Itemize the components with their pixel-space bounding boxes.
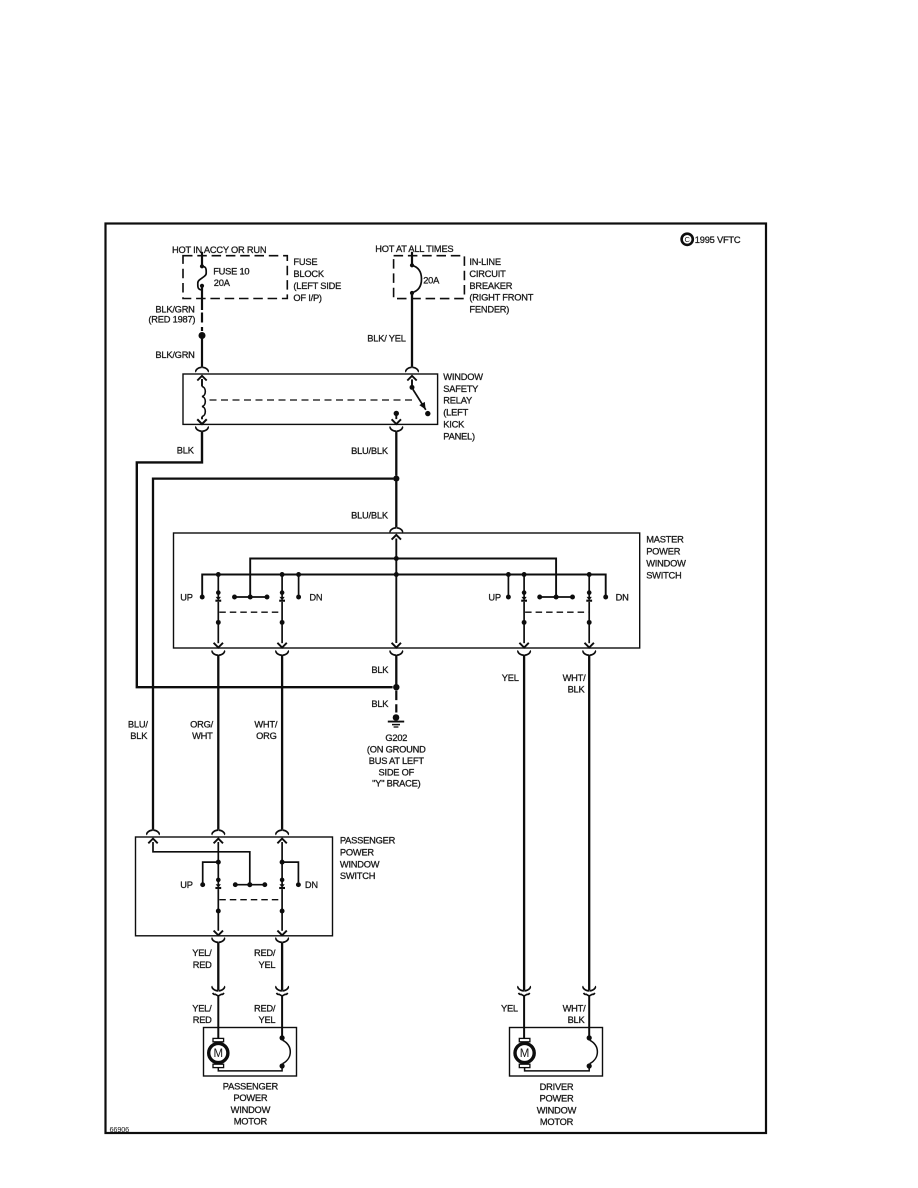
svg-text:ORG/: ORG/ bbox=[190, 720, 214, 730]
passenger input arrow 2 bbox=[214, 839, 223, 844]
wire RED/YEL to connector bbox=[281, 942, 283, 990]
svg-text:FUSE 10: FUSE 10 bbox=[213, 267, 249, 277]
wire RED/YEL into motor bbox=[281, 996, 283, 1036]
svg-text:DRIVER: DRIVER bbox=[540, 1082, 574, 1092]
connector dome master switch input bbox=[390, 528, 402, 533]
passenger entry 2 wire bbox=[217, 842, 219, 878]
svg-text:PANEL): PANEL) bbox=[443, 432, 475, 442]
svg-text:SWITCH: SWITCH bbox=[646, 571, 681, 581]
connector cup passenger exit 2 bbox=[276, 938, 288, 943]
junction line B right contact 1 bbox=[522, 572, 527, 577]
master left contact 1 column bbox=[215, 575, 221, 644]
fuse F10 bbox=[198, 252, 206, 290]
master right contact 1 column bbox=[521, 575, 527, 644]
wire BLK/GRN dashed (RED 1987) bbox=[201, 287, 203, 331]
master right triple contacts bbox=[537, 595, 575, 600]
svg-text:HOT IN ACCY OR RUN: HOT IN ACCY OR RUN bbox=[172, 245, 266, 255]
master center wire bbox=[395, 539, 397, 644]
label FUSE 10 20A bbox=[213, 267, 249, 289]
svg-text:66906: 66906 bbox=[110, 1125, 130, 1134]
passenger entry 3 wire bbox=[281, 842, 283, 878]
svg-text:WINDOW: WINDOW bbox=[537, 1105, 577, 1115]
wire BLK/YEL bbox=[411, 295, 413, 367]
svg-text:WHT: WHT bbox=[192, 731, 213, 741]
master right contact 2 column bbox=[586, 575, 592, 644]
junction passenger entry 3 bbox=[280, 860, 285, 865]
window safety relay box bbox=[183, 374, 438, 424]
svg-text:YEL/: YEL/ bbox=[192, 948, 212, 958]
svg-text:RED/: RED/ bbox=[254, 1003, 276, 1013]
splice S bbox=[199, 332, 206, 339]
svg-text:OF I/P): OF I/P) bbox=[293, 293, 322, 303]
svg-text:(RIGHT FRONT: (RIGHT FRONT bbox=[469, 293, 533, 303]
master left contact 2 column bbox=[279, 575, 285, 644]
svg-text:1995 VFTC: 1995 VFTC bbox=[695, 235, 741, 245]
passenger input arrow 1 bbox=[148, 839, 157, 844]
connector dome relay switch input bbox=[406, 367, 418, 372]
in-line connector RED/YEL bbox=[276, 986, 288, 996]
svg-text:BLOCK: BLOCK bbox=[293, 269, 324, 279]
master bus line A bbox=[250, 559, 556, 596]
wire WHT/ORG master to passenger switch bbox=[281, 655, 283, 830]
svg-text:WHT/: WHT/ bbox=[563, 673, 587, 683]
motor M driver bbox=[515, 1038, 534, 1067]
svg-text:BUS AT LEFT: BUS AT LEFT bbox=[369, 756, 425, 766]
svg-text:SIDE OF: SIDE OF bbox=[378, 767, 414, 777]
svg-text:IN-LINE: IN-LINE bbox=[469, 257, 501, 267]
junction line B center bbox=[394, 572, 399, 577]
svg-text:SWITCH: SWITCH bbox=[340, 871, 375, 881]
wire BLU/BLK to master switch bbox=[395, 482, 397, 528]
svg-text:WHT/: WHT/ bbox=[254, 720, 278, 730]
passenger motor return path bbox=[218, 1067, 282, 1071]
junction BLU/BLK bbox=[393, 476, 399, 482]
in-line connector YEL/RED bbox=[212, 986, 224, 996]
connector dome passenger switch input 2 bbox=[212, 830, 224, 835]
ground G202 bbox=[388, 714, 404, 727]
connector cup master exit WHT/BLK bbox=[583, 651, 595, 656]
svg-text:ORG: ORG bbox=[256, 731, 277, 741]
svg-text:YEL: YEL bbox=[501, 1003, 518, 1013]
motor M passenger bbox=[209, 1038, 228, 1067]
master input arrow bbox=[392, 535, 401, 540]
svg-text:(RED 1987): (RED 1987) bbox=[148, 315, 195, 325]
driver power window motor box bbox=[510, 1028, 603, 1077]
svg-text:(LEFT: (LEFT bbox=[443, 408, 468, 418]
svg-text:WINDOW: WINDOW bbox=[231, 1105, 271, 1115]
svg-text:WHT/: WHT/ bbox=[563, 1003, 587, 1013]
master bus line B bbox=[202, 575, 606, 596]
svg-text:SAFETY: SAFETY bbox=[443, 384, 478, 394]
wire BLK relay to ground bus bbox=[137, 431, 393, 687]
master right dashed jumper bbox=[525, 611, 588, 613]
svg-text:UP: UP bbox=[180, 592, 192, 602]
copyright logo bbox=[682, 234, 741, 246]
svg-text:POWER: POWER bbox=[539, 1094, 574, 1104]
svg-text:RELAY: RELAY bbox=[443, 396, 472, 406]
passenger contact 2 bbox=[279, 878, 285, 931]
svg-text:YEL/: YEL/ bbox=[192, 1003, 212, 1013]
svg-text:BLK: BLK bbox=[130, 731, 148, 741]
passenger contact 1 bbox=[215, 878, 221, 931]
master left dashed jumper bbox=[219, 611, 281, 613]
svg-text:(LEFT SIDE: (LEFT SIDE bbox=[293, 281, 341, 291]
connector dome passenger switch input 1 bbox=[147, 830, 159, 835]
wire BLK/GRN bbox=[201, 338, 203, 367]
wire BLK master to ground junction bbox=[395, 655, 397, 685]
wire YEL/RED into motor bbox=[217, 996, 219, 1038]
connector dome relay coil input bbox=[196, 367, 208, 372]
wire YEL into driver motor bbox=[523, 996, 525, 1038]
wire YEL master to driver motor bbox=[523, 655, 525, 990]
wire BLK dashed to ground bbox=[395, 691, 397, 713]
in-line circuit breaker dashed box bbox=[394, 256, 465, 299]
svg-text:BLU/: BLU/ bbox=[128, 720, 148, 730]
svg-text:RED: RED bbox=[193, 1015, 212, 1025]
master exit arrow BLK bbox=[392, 643, 401, 648]
svg-text:POWER: POWER bbox=[646, 546, 681, 556]
wire WHT/BLK master to driver motor bbox=[588, 655, 590, 990]
svg-text:BLU/BLK: BLU/BLK bbox=[351, 511, 389, 521]
fuse block dashed box bbox=[183, 256, 287, 299]
in-line connector WHT/BLK driver bbox=[583, 986, 595, 996]
svg-text:"Y" BRACE): "Y" BRACE) bbox=[372, 779, 420, 789]
connector cup relay ground bbox=[196, 427, 208, 432]
svg-text:BLK: BLK bbox=[371, 699, 389, 709]
master UP-left terminal bbox=[200, 595, 205, 600]
in-line connector YEL driver bbox=[518, 986, 530, 996]
svg-text:C: C bbox=[684, 235, 690, 244]
svg-text:BLK/GRN: BLK/GRN bbox=[155, 304, 194, 314]
connector cup master exit 2 bbox=[276, 651, 288, 656]
svg-text:PASSENGER: PASSENGER bbox=[340, 836, 396, 846]
svg-text:WINDOW: WINDOW bbox=[646, 559, 686, 569]
svg-text:DN: DN bbox=[305, 880, 318, 890]
connector cup relay output bbox=[390, 427, 402, 432]
svg-text:FUSE: FUSE bbox=[293, 257, 317, 267]
wire WHT/BLK into driver motor bbox=[588, 996, 590, 1036]
passenger DN stub bbox=[282, 862, 301, 887]
svg-text:YEL: YEL bbox=[258, 960, 275, 970]
connector cup passenger exit 1 bbox=[212, 938, 224, 943]
ground junction bbox=[393, 684, 399, 690]
relay output terminal bbox=[394, 411, 399, 419]
svg-text:BLK/ YEL: BLK/ YEL bbox=[367, 334, 405, 344]
label WHT/ ORG wire bbox=[254, 720, 278, 742]
label MASTER POWER WINDOW SWITCH bbox=[646, 534, 686, 580]
svg-text:POWER: POWER bbox=[340, 847, 375, 857]
label RED/ YEL lower bbox=[254, 1003, 276, 1025]
master left exit arrow 1 bbox=[214, 643, 223, 648]
master UP-right stub bbox=[506, 572, 511, 599]
svg-text:BLK/GRN: BLK/GRN bbox=[155, 350, 194, 360]
svg-text:HOT AT ALL TIMES: HOT AT ALL TIMES bbox=[375, 244, 453, 254]
wire BLU/BLK relay output down bbox=[395, 431, 397, 475]
junction line B left contact 1 bbox=[216, 572, 221, 577]
svg-text:RED: RED bbox=[193, 960, 212, 970]
label FUSE BLOCK (LEFT SIDE OF I/P) bbox=[293, 257, 341, 303]
relay ground terminal arrow bbox=[197, 419, 206, 424]
svg-text:BLU/BLK: BLU/BLK bbox=[351, 446, 389, 456]
master left exit arrow 2 bbox=[277, 643, 286, 648]
label PASSENGER POWER WINDOW MOTOR bbox=[223, 1081, 279, 1126]
junction line A center bbox=[394, 556, 399, 561]
svg-text:(ON GROUND: (ON GROUND bbox=[367, 745, 426, 755]
label G202 (ON GROUND BUS AT LEFT SIDE OF "Y" BRACE) bbox=[367, 733, 426, 789]
master right exit arrow 2 bbox=[585, 643, 594, 648]
svg-text:PASSENGER: PASSENGER bbox=[223, 1081, 279, 1091]
wire ORG/WHT master to passenger switch bbox=[217, 655, 219, 830]
passenger BLU/BLK internal feed bbox=[153, 842, 250, 883]
svg-text:G202: G202 bbox=[385, 733, 407, 743]
svg-text:MASTER: MASTER bbox=[646, 534, 684, 544]
driver motor return path bbox=[525, 1067, 590, 1071]
passenger exit arrow 2 bbox=[277, 931, 286, 936]
passenger power window motor box bbox=[204, 1028, 297, 1077]
connector cup master exit 1 bbox=[212, 651, 224, 656]
svg-text:BREAKER: BREAKER bbox=[469, 281, 512, 291]
label WHT/ BLK driver lower bbox=[563, 1003, 587, 1025]
passenger exit arrow 1 bbox=[214, 931, 223, 936]
wire YEL/RED to connector bbox=[217, 942, 219, 990]
svg-text:UP: UP bbox=[180, 880, 192, 890]
label BLU/ BLK wire bbox=[128, 720, 148, 742]
label YEL/ RED lower bbox=[192, 1003, 212, 1025]
connector cup master exit YEL bbox=[518, 651, 530, 656]
svg-text:RED/: RED/ bbox=[254, 948, 276, 958]
svg-text:KICK: KICK bbox=[443, 420, 465, 430]
junction passenger entry 2 bbox=[216, 860, 221, 865]
passenger power window switch box bbox=[136, 837, 333, 936]
svg-text:WINDOW: WINDOW bbox=[443, 372, 483, 382]
svg-text:FENDER): FENDER) bbox=[469, 305, 509, 315]
svg-text:WINDOW: WINDOW bbox=[340, 859, 380, 869]
relay output arrow bbox=[392, 419, 401, 424]
svg-text:BLK: BLK bbox=[568, 1015, 586, 1025]
master DN-left stub bbox=[296, 572, 301, 599]
relay switch arm bbox=[410, 379, 431, 416]
junction line B left contact 2 bbox=[280, 572, 285, 577]
label WINDOW SAFETY RELAY (LEFT KICK PANEL) bbox=[443, 372, 483, 442]
outer frame border bbox=[106, 224, 767, 1134]
driver motor arc contact bbox=[587, 1035, 598, 1068]
relay coil bbox=[202, 379, 205, 419]
connector dome passenger switch input 3 bbox=[276, 830, 288, 835]
svg-text:YEL: YEL bbox=[258, 1015, 275, 1025]
relay internal dashed link bbox=[210, 399, 416, 401]
master right exit arrow 1 bbox=[519, 643, 528, 648]
svg-text:DN: DN bbox=[309, 592, 322, 602]
passenger dashed jumper bbox=[219, 899, 281, 901]
svg-text:20A: 20A bbox=[214, 278, 231, 288]
svg-text:CIRCUIT: CIRCUIT bbox=[469, 269, 506, 279]
label BLK/GRN (RED 1987) bbox=[148, 304, 195, 324]
svg-text:DN: DN bbox=[616, 592, 629, 602]
relay switch terminal arrow bbox=[407, 376, 416, 381]
master power window switch box bbox=[174, 533, 640, 648]
master DN-right terminal bbox=[603, 595, 608, 600]
circuit breaker element bbox=[410, 252, 422, 295]
svg-text:POWER: POWER bbox=[233, 1093, 268, 1103]
svg-text:BLK: BLK bbox=[177, 446, 195, 456]
passenger input arrow 3 bbox=[277, 839, 286, 844]
label YEL/ RED upper bbox=[192, 948, 212, 970]
passenger motor arc contact bbox=[280, 1035, 291, 1068]
label WHT/BLK below master bbox=[563, 673, 587, 695]
svg-text:BLK: BLK bbox=[371, 665, 389, 675]
passenger triple contacts bbox=[233, 882, 267, 887]
junction line B right contact 2 bbox=[587, 572, 592, 577]
passenger UP stub bbox=[200, 862, 218, 887]
relay coil bottom arrow bbox=[197, 419, 206, 424]
svg-text:MOTOR: MOTOR bbox=[234, 1117, 268, 1127]
svg-text:BLK: BLK bbox=[568, 684, 586, 694]
wire BLU/BLK branch to passenger switch bbox=[153, 479, 393, 830]
label DRIVER POWER WINDOW MOTOR bbox=[537, 1082, 577, 1127]
connector cup master exit BLK bbox=[390, 651, 402, 656]
relay coil terminal arrow bbox=[197, 376, 206, 381]
master left triple contacts bbox=[232, 595, 269, 600]
label RED/ YEL upper bbox=[254, 948, 276, 970]
label IN-LINE CIRCUIT BREAKER (RIGHT FRONT FENDER) bbox=[469, 257, 533, 315]
label ORG/ WHT wire bbox=[190, 720, 214, 742]
svg-text:UP: UP bbox=[488, 592, 500, 602]
label PASSENGER POWER WINDOW SWITCH bbox=[340, 836, 396, 881]
svg-text:20A: 20A bbox=[423, 275, 440, 285]
svg-text:YEL: YEL bbox=[502, 673, 519, 683]
svg-text:MOTOR: MOTOR bbox=[540, 1117, 574, 1127]
